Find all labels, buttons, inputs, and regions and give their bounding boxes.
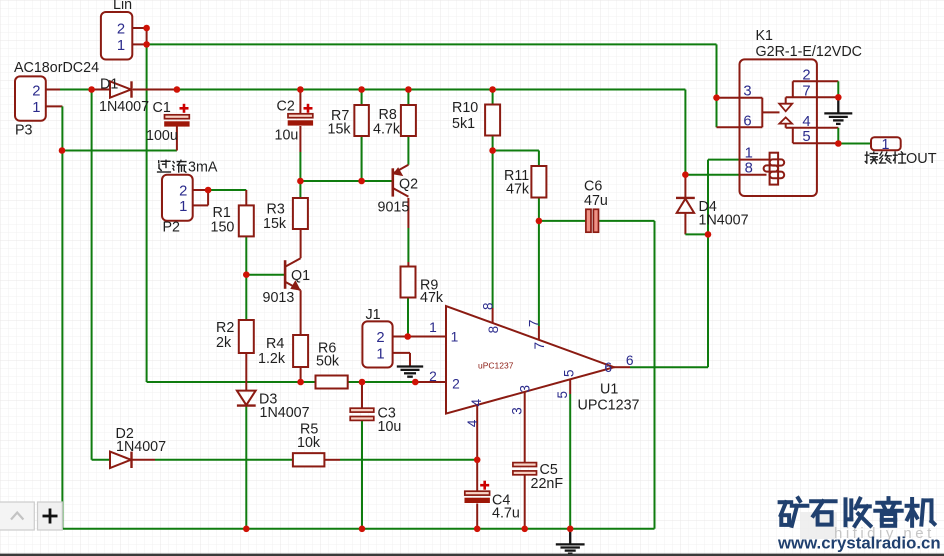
wire pin1 input <box>408 336 446 338</box>
wire V+ rail <box>177 89 686 91</box>
junction C2-R3 <box>297 178 304 185</box>
svg-text:50k: 50k <box>316 354 340 370</box>
wire R4 top lead <box>300 290 302 335</box>
relay K1 pin 6 line <box>717 126 763 128</box>
wire R7 bottom lead <box>361 136 363 181</box>
junction R1-R2-Q1 <box>243 271 250 278</box>
svg-text:R10: R10 <box>452 100 478 116</box>
wire opamp output lead <box>614 366 630 368</box>
svg-text:www.crystalradio.cn: www.crystalradio.cn <box>777 534 941 553</box>
toolbar button add <box>38 502 63 530</box>
svg-text:OUT: OUT <box>906 151 937 167</box>
wire P3 pin2 stub <box>46 89 60 91</box>
wire base rail R7-Q2 <box>362 180 393 182</box>
wire R6 left <box>301 381 316 383</box>
wire R7 top lead <box>361 90 363 106</box>
wire base rail C2-R7 <box>300 180 361 182</box>
transistor Q1 <box>285 258 301 290</box>
wire top rail drop to relay <box>716 44 718 97</box>
svg-text:7: 7 <box>526 320 541 328</box>
svg-text:1: 1 <box>882 137 890 153</box>
wire R2 to D3 <box>245 353 247 391</box>
svg-text:5k1: 5k1 <box>452 116 475 132</box>
svg-text:Lin: Lin <box>113 0 132 13</box>
C1 plus mark <box>180 104 189 113</box>
svg-text:3: 3 <box>510 407 525 415</box>
junction R10 bottom <box>489 147 496 154</box>
watermark background box <box>800 512 837 539</box>
ground at relay pins 2-7 <box>824 97 852 124</box>
svg-text:4.7u: 4.7u <box>492 506 520 522</box>
svg-text:uPC1237: uPC1237 <box>478 361 514 371</box>
junction R10 top <box>489 86 496 93</box>
relay K1 common contact line <box>762 111 779 113</box>
wire D3 cathode to rail <box>245 406 247 529</box>
svg-text:3mA: 3mA <box>188 160 218 176</box>
capacitor C5 plates <box>513 463 537 475</box>
junction C3 top <box>359 379 366 386</box>
svg-text:K1: K1 <box>756 28 774 44</box>
wire D1 cathode lead <box>133 89 177 91</box>
junction Lin pin1 <box>143 41 150 48</box>
junction R11 bottom <box>536 218 543 225</box>
wire C1 bottom horizontal <box>62 150 177 152</box>
relay K1 pin4-5 left tie <box>792 128 794 143</box>
resistor R6 <box>316 376 348 389</box>
svg-text:C1: C1 <box>153 100 171 116</box>
svg-text:6: 6 <box>743 113 751 129</box>
wire C2 bottom to node <box>299 152 301 181</box>
svg-text:5: 5 <box>555 391 570 399</box>
svg-text:4: 4 <box>465 419 480 427</box>
svg-text:47u: 47u <box>584 193 608 209</box>
svg-text:2: 2 <box>376 330 384 346</box>
wire D2 to R5 <box>155 459 293 461</box>
wire opamp pin4 lead <box>476 405 478 460</box>
resistor R1 <box>239 205 254 236</box>
wire Q2 collector to R9 <box>407 228 409 262</box>
capacitor C4 plates <box>465 491 490 502</box>
wire V+ rail drop <box>684 90 686 175</box>
wire R11 to C6 <box>539 220 586 222</box>
wire C6 right horizontal <box>599 220 655 222</box>
wire relay pin3-pin6 tie <box>716 98 718 128</box>
wire R11 top lead <box>538 151 540 167</box>
svg-text:2: 2 <box>452 377 460 392</box>
capacitor C6 <box>586 209 599 232</box>
wire C3 bottom lead <box>361 420 363 528</box>
wire pin4 to C4 <box>476 460 478 491</box>
wire relay coil pin8 feed <box>685 174 739 176</box>
wire sense horizontal <box>147 381 301 383</box>
svg-text:47k: 47k <box>420 290 444 306</box>
junction D1-C1 <box>174 86 181 93</box>
svg-text:1: 1 <box>32 100 40 116</box>
wire P2 pin tie <box>207 190 209 205</box>
wire bottom ground rail <box>62 528 654 530</box>
svg-text:Q2: Q2 <box>399 177 418 193</box>
wire top rail horizontal <box>147 43 717 45</box>
junction D4 bottom <box>705 231 712 238</box>
svg-text:9015: 9015 <box>378 200 410 216</box>
relay K1 NC contact arrow <box>779 97 792 111</box>
svg-text:Q1: Q1 <box>291 268 310 284</box>
resistor R7 <box>354 105 369 136</box>
junction C5 rail <box>521 526 528 533</box>
junction relay pin2-7 <box>835 94 842 101</box>
op-amp U1 UPC1237 <box>446 306 614 414</box>
wire ground left vertical <box>61 106 63 528</box>
junction pin4-R5 <box>474 457 481 464</box>
relay K1 pin 5 line <box>793 142 839 144</box>
svg-text:1: 1 <box>117 38 125 54</box>
wire D2 cathode lead <box>131 459 155 461</box>
wire J1 pin2 stub <box>393 336 408 338</box>
wire Lin pin1 stub <box>132 43 146 45</box>
svg-text:47k: 47k <box>506 182 530 198</box>
junction relay pin3 <box>713 94 720 101</box>
wire C4 bottom lead <box>476 504 478 529</box>
junction ground-C1 <box>59 147 66 154</box>
svg-text:15k: 15k <box>328 122 352 138</box>
svg-text:100u: 100u <box>146 128 178 144</box>
diode D3 symbol <box>237 391 256 406</box>
svg-text:15k: 15k <box>263 216 287 232</box>
relay K1 NO contact arrow <box>779 117 792 127</box>
wire R9 top lead <box>407 262 409 267</box>
svg-text:10u: 10u <box>378 419 402 435</box>
svg-text:1N4007: 1N4007 <box>99 99 149 115</box>
wire output horizontal <box>630 366 708 368</box>
svg-text:3: 3 <box>743 83 751 99</box>
junction P3-D2 branch <box>88 86 95 93</box>
svg-text:1N4007: 1N4007 <box>699 213 749 229</box>
resistor R4 <box>293 335 308 367</box>
wire R4 bottom lead <box>300 367 302 382</box>
svg-text:UPC1237: UPC1237 <box>578 398 640 414</box>
connector Lin <box>101 12 132 60</box>
svg-text:2: 2 <box>117 22 125 38</box>
junction D3 rail <box>243 526 250 533</box>
wire R9 bottom lead <box>407 298 409 337</box>
connector J1 <box>362 321 392 367</box>
wire P3 pin1 stub <box>46 105 63 107</box>
wire pin2-7 right tie <box>837 81 839 97</box>
wire pin4-5 right tie <box>837 128 839 144</box>
svg-text:5: 5 <box>802 129 810 145</box>
wire output vertical <box>707 234 709 367</box>
svg-text:4: 4 <box>802 114 810 130</box>
bottom window edge bar <box>0 554 944 556</box>
svg-text:7: 7 <box>532 342 547 350</box>
svg-text:22nF: 22nF <box>531 476 564 492</box>
junction R7 top <box>358 86 365 93</box>
relay K1 pin 4 line <box>786 127 839 129</box>
svg-text:8: 8 <box>486 326 501 334</box>
svg-text:9013: 9013 <box>263 290 295 306</box>
wire R5 to pin4 node <box>340 459 477 461</box>
junction J1-R9-pin1 <box>404 333 411 340</box>
junction P2 pins <box>205 187 212 194</box>
wire opamp pin3 lead <box>524 392 526 463</box>
wire C2 top lead <box>299 90 301 114</box>
wire coil pin8 lead <box>740 174 767 176</box>
wire opamp pin8 vertical <box>492 151 494 309</box>
wire R8 bottom lead <box>407 136 409 165</box>
wire J1 pin1 drop <box>409 353 411 366</box>
capacitor C2 plates <box>288 114 313 125</box>
wire Lin pin tie <box>146 28 148 44</box>
wire opamp pin5 stub <box>569 380 571 394</box>
junction C4 rail <box>474 526 481 533</box>
transistor Q2 <box>393 165 409 197</box>
wire R10 top lead <box>492 90 494 105</box>
wire D2 branch horizontal <box>92 459 110 461</box>
wire Q1 collector lead <box>300 229 302 258</box>
relay K1 contact box 3-6 <box>761 98 763 128</box>
toolbar button collapse <box>0 502 34 530</box>
relay K1 pin 7 line <box>786 96 839 98</box>
wire Q2 collector lead <box>407 198 409 228</box>
diode D1 symbol <box>110 81 132 97</box>
wire D4 to output <box>685 233 708 235</box>
svg-text:150: 150 <box>211 220 235 236</box>
relay K1 pin 2 line <box>793 80 839 82</box>
wire Q1 base <box>246 274 285 276</box>
label P2 overcurrent 3mA <box>158 160 171 172</box>
svg-text:1N4007: 1N4007 <box>116 439 166 455</box>
svg-text:P2: P2 <box>163 220 181 236</box>
resistor R3 <box>293 198 308 229</box>
resistor R10 <box>485 105 500 136</box>
wire output to coil <box>707 160 709 235</box>
wire R11 bottom lead <box>538 198 540 221</box>
svg-text:C2: C2 <box>277 99 295 115</box>
svg-text:R4: R4 <box>266 336 284 352</box>
relay K1 pin2-7 left tie <box>792 81 794 97</box>
svg-text:4: 4 <box>469 398 484 406</box>
wire R1 bottom lead <box>245 236 247 274</box>
wire Lin pin2 stub <box>132 27 146 29</box>
diode D4 symbol <box>676 198 695 213</box>
C2 plus mark <box>304 104 313 113</box>
watermark crystalradio logo text <box>780 498 935 526</box>
relay K1 coil <box>764 153 785 185</box>
wire C2 bottom lead <box>299 126 301 152</box>
svg-text:1: 1 <box>451 330 459 345</box>
wire D4 top lead <box>684 175 686 198</box>
svg-text:AC18orDC24: AC18orDC24 <box>14 60 99 76</box>
wire C3 node to pin2 <box>362 381 415 383</box>
capacitor C1 plates <box>165 115 190 126</box>
wire opamp pin8 stub <box>492 308 494 323</box>
label terminal OUT <box>865 152 877 164</box>
wire D2 branch vertical <box>91 90 93 460</box>
junction R8 top <box>405 86 412 93</box>
svg-text:2: 2 <box>32 83 40 99</box>
diode D2 symbol <box>110 452 132 468</box>
resistor R5 <box>293 453 325 466</box>
junction C2 top <box>297 86 304 93</box>
wire C5 bottom lead <box>524 476 526 529</box>
wire R6 right <box>348 381 362 383</box>
svg-text:G2R-1-E/12VDC: G2R-1-E/12VDC <box>756 44 862 60</box>
wire R10 bottom lead <box>492 136 494 151</box>
svg-text:10k: 10k <box>297 435 321 451</box>
svg-text:1: 1 <box>745 145 753 161</box>
wire J1 pin1 stub <box>393 352 410 354</box>
wire opamp pin7 vertical <box>538 221 540 326</box>
wire R8 top lead <box>407 90 409 106</box>
wire D1 anode lead <box>92 89 110 91</box>
wire P2 pin1 stub <box>193 204 208 206</box>
resistor R11 <box>531 166 546 198</box>
svg-text:2: 2 <box>179 183 187 199</box>
wire P2 to R1 <box>208 189 246 191</box>
junction pin5 rail <box>567 526 574 533</box>
junction coil8-D4 <box>682 171 689 178</box>
junction relay pin4-5 <box>835 140 842 147</box>
svg-text:8: 8 <box>745 160 753 176</box>
wire coil pin1 lead <box>740 159 770 161</box>
resistor R2 <box>239 320 254 353</box>
wire P2 pin2 stub <box>193 189 208 191</box>
svg-text:5: 5 <box>562 369 577 377</box>
ground at J1 pin1 <box>397 367 423 377</box>
wire output connector feed <box>838 143 871 145</box>
junction C3 rail <box>359 526 366 533</box>
svg-text:2: 2 <box>802 67 810 83</box>
wire opamp pin7 stub <box>538 326 540 340</box>
wire Lin sense vertical <box>146 44 148 382</box>
connector P2 <box>162 175 193 221</box>
svg-text:4.7k: 4.7k <box>373 122 401 138</box>
svg-text:U1: U1 <box>600 382 618 398</box>
wire R10 to R11 <box>493 150 539 152</box>
wire P3 pin2 to D1 <box>60 89 92 91</box>
connector P3 <box>15 76 46 120</box>
svg-text:1.2k: 1.2k <box>258 351 286 367</box>
junction R7-base <box>358 178 365 185</box>
svg-text:3: 3 <box>517 385 532 393</box>
wire C6 right vertical <box>654 221 656 529</box>
junction pin2 wire <box>412 379 419 386</box>
wire pin2 input <box>415 381 446 383</box>
wire coil pin1 feed <box>708 159 740 161</box>
connector OUT terminal <box>871 137 901 150</box>
wire R2 top lead <box>245 275 247 320</box>
svg-text:1: 1 <box>429 320 437 335</box>
wire C1 bottom lead <box>176 126 178 151</box>
ground at bottom rail <box>556 529 585 554</box>
wire R3 top lead <box>299 181 301 198</box>
junction R4 bottom <box>297 379 304 386</box>
resistor R8 <box>401 105 416 136</box>
wire opamp pin5 vertical <box>569 394 571 529</box>
svg-text:J1: J1 <box>366 307 381 323</box>
wire D4 bottom lead <box>684 214 686 235</box>
junction Lin pin2 <box>143 25 150 32</box>
relay K1 body <box>740 59 817 196</box>
svg-text:D1: D1 <box>100 77 118 93</box>
svg-text:6: 6 <box>626 353 634 368</box>
wire R5 right lead <box>324 459 340 461</box>
resistor R9 <box>401 267 416 298</box>
svg-text:R2: R2 <box>216 320 234 336</box>
wire R1 top lead <box>245 190 247 205</box>
svg-text:1: 1 <box>376 346 384 362</box>
svg-text:2k: 2k <box>216 335 232 351</box>
svg-text:2: 2 <box>429 369 437 384</box>
wire C3 top lead <box>361 382 363 408</box>
capacitor C3 plates <box>350 408 374 420</box>
svg-text:P3: P3 <box>15 123 33 139</box>
svg-text:7: 7 <box>802 83 810 99</box>
svg-text:8: 8 <box>480 303 495 311</box>
svg-text:1N4007: 1N4007 <box>260 405 310 421</box>
svg-text:10u: 10u <box>275 128 299 144</box>
svg-text:1: 1 <box>179 199 187 215</box>
svg-text:6: 6 <box>604 360 612 375</box>
relay K1 pin 3 line <box>717 97 763 99</box>
C4 plus mark <box>480 481 489 490</box>
